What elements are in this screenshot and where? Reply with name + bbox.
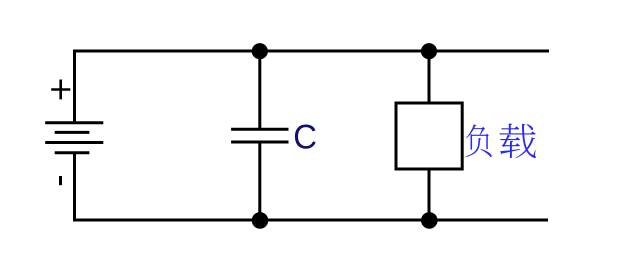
node: bottom rail / capacitor junction [252,212,269,229]
node: top rail / capacitor junction [252,43,268,59]
wire: load top lead [428,51,431,103]
label: C value [295,125,316,149]
load box (resistor RL) [396,103,462,169]
battery B1 short plate (top cell -) [55,131,90,134]
label: + polarity mark [51,80,70,100]
label: - polarity mark [59,176,62,185]
battery B1 long plate (top cell +) [45,121,103,124]
capacitor C top plate [231,128,288,131]
battery B1 short plate (bottom cell -) [55,151,90,154]
capacitor C bottom plate [231,141,288,144]
wire: capacitor bottom lead [258,142,261,220]
wire: bottom rail from battery - terminal to right edge [75,153,549,220]
wire: capacitor top lead [258,51,261,129]
wire: load bottom lead [428,169,431,220]
label: 载 (load) character [499,124,536,159]
battery B1 long plate (bottom cell +) [45,141,103,144]
node: top rail / load junction [421,43,437,59]
wire: top rail from battery + terminal to right edge [75,51,550,123]
node: bottom rail / load junction [421,212,438,229]
label: 负 (load) character [466,124,492,157]
